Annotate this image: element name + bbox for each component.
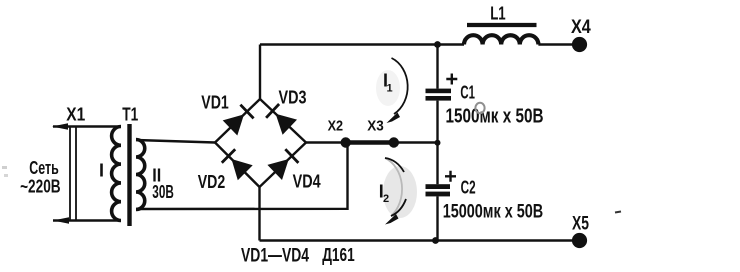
svg-text:30В: 30В [152, 182, 174, 202]
svg-text:VD1: VD1 [201, 92, 229, 113]
svg-text:15000мк х 50В: 15000мк х 50В [443, 201, 544, 223]
svg-text:VD3: VD3 [279, 87, 307, 108]
svg-text:X3: X3 [367, 118, 384, 135]
svg-text:T1: T1 [122, 104, 138, 125]
svg-text:1: 1 [387, 83, 393, 95]
svg-text:VD4: VD4 [293, 171, 322, 192]
svg-text:~220В: ~220В [20, 176, 61, 196]
svg-text:X2: X2 [328, 118, 344, 135]
svg-text:X4: X4 [571, 16, 591, 38]
svg-text:L1: L1 [490, 2, 506, 23]
svg-text:Д161: Д161 [322, 244, 355, 265]
svg-text:VD2: VD2 [198, 171, 226, 192]
svg-text:X5: X5 [572, 213, 589, 235]
svg-text:C1: C1 [460, 82, 475, 103]
svg-text:Сеть: Сеть [29, 158, 59, 178]
svg-text:2: 2 [383, 193, 389, 205]
svg-text:X1: X1 [66, 104, 85, 125]
svg-text:C2: C2 [461, 176, 476, 197]
svg-text:1500мк х 50В: 1500мк х 50В [446, 105, 544, 127]
svg-text:I: I [99, 161, 104, 181]
svg-text:VD1—VD4: VD1—VD4 [241, 245, 309, 266]
